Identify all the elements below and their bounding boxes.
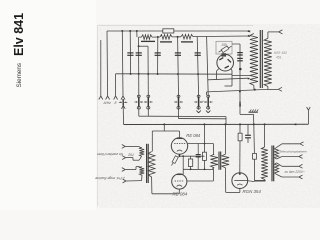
svg-text:Siemens: Siemens bbox=[16, 63, 23, 88]
svg-text:Elv 841: Elv 841 bbox=[12, 13, 26, 56]
